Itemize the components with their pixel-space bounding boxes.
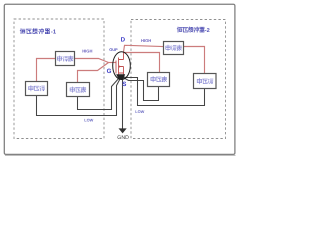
svg-text:-2: -2	[205, 28, 210, 34]
svg-text:OUP: OUP	[109, 47, 118, 52]
svg-text:S: S	[122, 81, 126, 88]
svg-text:HIGH: HIGH	[82, 49, 92, 54]
svg-text:HIGH: HIGH	[141, 38, 151, 43]
svg-text:D: D	[121, 37, 126, 44]
svg-text:LOW: LOW	[84, 117, 93, 122]
svg-text:G: G	[107, 68, 112, 75]
svg-text:-1: -1	[51, 30, 57, 36]
svg-text:GND: GND	[117, 135, 129, 141]
svg-text:LOW: LOW	[135, 109, 144, 114]
